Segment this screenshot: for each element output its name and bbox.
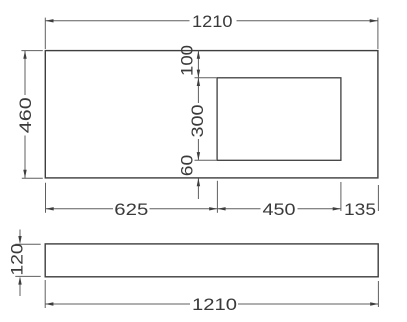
svg-text:1210: 1210	[192, 12, 233, 31]
dimension 450 bottom	[217, 181, 341, 219]
dimension 100 (cutout top offset)	[178, 45, 217, 78]
svg-text:450: 450	[263, 200, 296, 219]
side view outline	[45, 244, 378, 277]
dimension 1210 bottom	[45, 280, 378, 314]
dimension 1210 top	[45, 12, 378, 49]
dimension 300 (cutout height)	[188, 78, 216, 161]
svg-text:60: 60	[178, 155, 197, 177]
svg-text:1210: 1210	[192, 295, 237, 314]
svg-text:300: 300	[188, 105, 207, 138]
sink cutout rectangle	[217, 78, 341, 161]
dimension 120 (side view thickness)	[7, 230, 40, 297]
svg-text:120: 120	[7, 243, 26, 275]
top view outline	[45, 51, 378, 178]
dimension 60 (cutout bottom offset)	[178, 155, 201, 199]
svg-text:135: 135	[344, 200, 376, 219]
dimension 460 left	[16, 51, 43, 179]
svg-text:460: 460	[16, 97, 35, 133]
dimension 625 bottom	[46, 183, 218, 219]
dimension 135 bottom	[344, 185, 378, 219]
svg-text:625: 625	[114, 200, 148, 219]
svg-text:100: 100	[178, 45, 197, 76]
